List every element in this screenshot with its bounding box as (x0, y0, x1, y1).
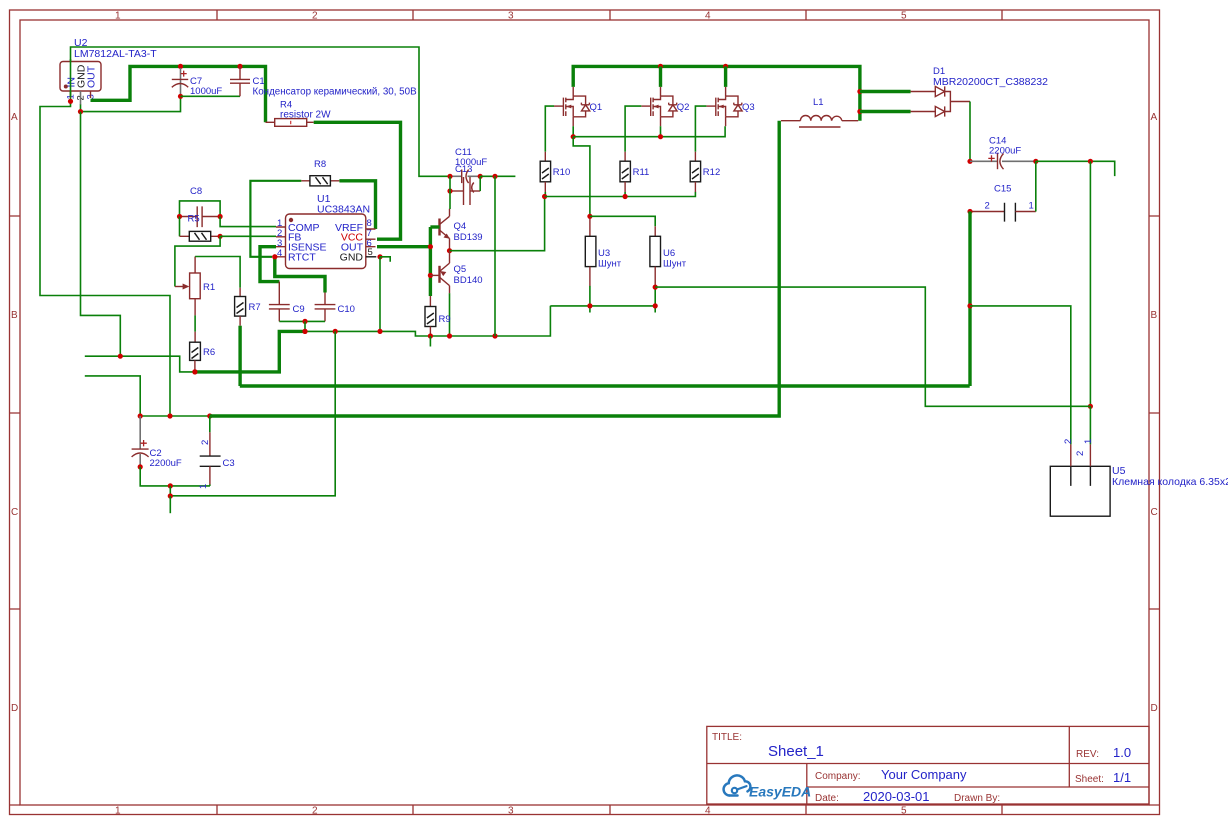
wire: R1 bottom to R6 top (194, 315, 196, 331)
wire: C8 right to U1 COMP (pin1) (220, 217, 276, 227)
regulator U2 LM7812AL-TA3-T (60, 37, 157, 112)
node: ground rail at x305 (302, 329, 307, 334)
wire: U2 GND to C7/C1 bottom node (81, 96, 181, 111)
diode D1 MBR20200CT (911, 66, 1049, 117)
node: C8 right junction (218, 214, 223, 219)
svg-text:1: 1 (115, 11, 121, 22)
wire: GND pin5 down to ground rail (379, 257, 381, 332)
node: emitters junction (447, 248, 452, 253)
frame top ticks (217, 10, 1002, 20)
capacitor C1 ceramic (230, 64, 417, 98)
svg-text:Company:: Company: (815, 771, 861, 782)
wire: R5 right to U1 FB (pin2) (220, 235, 276, 237)
svg-text:2: 2 (1075, 451, 1086, 456)
svg-text:C13: C13 (455, 164, 472, 175)
svg-text:Your Company: Your Company (881, 767, 967, 782)
node: rail at Q2 (658, 64, 663, 69)
svg-text:C3: C3 (223, 458, 235, 469)
svg-text:U3: U3 (598, 248, 610, 259)
svg-text:R12: R12 (703, 167, 720, 178)
wire: R4 left lead joint (266, 121, 275, 123)
svg-text:D: D (1151, 703, 1158, 714)
wire: net y416 thin part (140, 415, 210, 417)
wire: FB net down to R1 wiper (175, 236, 220, 286)
wire: Q3 gate down to R12 (695, 106, 706, 152)
node: RTCT pin4 junction redraw (272, 254, 277, 259)
wire: R7 bottom thick to mid rail (238, 326, 241, 386)
wire: U6 bottom (654, 287, 656, 312)
terminal block U5 (1050, 439, 1228, 516)
capacitor C13 (450, 147, 487, 183)
svg-text:2200uF: 2200uF (989, 146, 1021, 157)
resistor R12 (690, 152, 720, 192)
svg-text:2: 2 (1063, 439, 1074, 444)
svg-text:C: C (1151, 507, 1158, 518)
wire: feed to D1 top anode thick (860, 90, 911, 93)
node: shunt rail at U6 (653, 303, 658, 308)
svg-text:Q2: Q2 (677, 102, 690, 113)
resistor R11 (620, 152, 649, 197)
svg-text:BD140: BD140 (454, 275, 483, 286)
svg-text:Sheet:: Sheet: (1075, 774, 1104, 785)
node: Q1 source junction (571, 134, 576, 139)
svg-text:TITLE:: TITLE: (712, 732, 742, 743)
svg-text:5: 5 (901, 11, 907, 22)
wire: top +V rail thick (573, 66, 860, 120)
svg-text:3: 3 (508, 11, 514, 22)
wire: U3 top to U6 top (590, 216, 655, 226)
wire: Q1 source down to U3 (573, 137, 590, 217)
wire: ground rail thin (305, 306, 550, 336)
svg-text:LM7812AL-TA3-T: LM7812AL-TA3-T (74, 48, 157, 60)
svg-text:5: 5 (901, 806, 907, 817)
svg-text:Q5: Q5 (454, 264, 467, 275)
wire: R8 right to U1 VREF (pin8) thick (339, 181, 375, 229)
svg-text:C9: C9 (293, 304, 305, 315)
wire: U1 RTCT to C10 top thick (275, 257, 325, 293)
node: x495 top junction (492, 174, 497, 179)
node: U5 pin1 net junction (1088, 404, 1093, 409)
svg-text:R5: R5 (188, 214, 200, 225)
node: R5 right junction (FB net) (218, 234, 223, 239)
capacitor C9 (269, 304, 305, 321)
EasyEDA logo cloud (724, 775, 751, 795)
svg-text:1: 1 (1029, 201, 1034, 212)
resistor R4 2W (275, 100, 331, 127)
wire: C8 left down to R5 left (179, 217, 181, 237)
wire: shunt bottom rail (550, 305, 655, 307)
node: Q5 base junction (428, 273, 433, 278)
wire: Q4 base thick from OUT net (430, 225, 439, 228)
capacitor C10 (315, 293, 355, 322)
mosfet Q2 (641, 87, 689, 126)
wire: C9/C10 bottom link (279, 320, 325, 322)
node: C13 left junction (447, 174, 452, 179)
node: C14 right junction (1033, 159, 1038, 164)
capacitor C7 1000uF (172, 64, 223, 99)
node: U3 top junction (587, 214, 592, 219)
wire: GND pin5 stub right (380, 257, 390, 262)
svg-text:C10: C10 (338, 304, 355, 315)
svg-text:D: D (11, 703, 18, 714)
node: rail at Q3 (723, 64, 728, 69)
node: ground rail x495 (492, 333, 497, 338)
wire: C8 bypass loop top (180, 201, 221, 217)
svg-text:Drawn By:: Drawn By: (954, 793, 1000, 804)
node: C14 left junction (967, 159, 972, 164)
wire: C3 top lead from y416 (209, 416, 211, 432)
node: L1 right rail D1 top feed (857, 89, 862, 94)
wire: Q2 source lead (660, 126, 662, 137)
wire: U2 IN up and across top to C13 node (71, 47, 451, 176)
node: bottom net x170 lower (168, 493, 173, 498)
potentiometer R1 (175, 257, 215, 316)
svg-text:R1: R1 (203, 282, 215, 293)
node: C8 left junction (177, 214, 182, 219)
wire: rail drop to Q2 drain (659, 66, 662, 87)
node: C9/C10 junction redraw (302, 329, 307, 334)
svg-text:C1: C1 (253, 76, 265, 87)
resistor R5 (180, 231, 221, 241)
capacitor C11 (450, 177, 480, 205)
wire: feed to D1 bottom anode thick (860, 110, 911, 113)
node: shunt rail at U3 (587, 303, 592, 308)
svg-text:Q3: Q3 (742, 102, 755, 113)
node: y416 x140 (138, 413, 143, 418)
svg-text:Q4: Q4 (454, 221, 467, 232)
wire: C7 bottom to C1 bottom (181, 95, 241, 97)
svg-text:EasyEDA: EasyEDA (749, 784, 811, 800)
svg-text:Конденсатор керамический, 30,: Конденсатор керамический, 30, 50В (253, 87, 418, 98)
svg-text:2200uF: 2200uF (150, 458, 182, 469)
svg-text:Sheet_1: Sheet_1 (768, 743, 824, 760)
svg-text:2: 2 (985, 201, 990, 212)
resistor R10 (540, 152, 570, 197)
node: GND pin5 junction (377, 254, 382, 259)
svg-text:A: A (11, 112, 18, 123)
capacitor C2 2200uF (132, 416, 182, 470)
svg-text:1000uF: 1000uF (190, 86, 222, 97)
node: RTCT pin4 junction (272, 254, 277, 259)
node: R11 bottom junction (623, 194, 628, 199)
capacitor C14 2200uF (970, 136, 1036, 170)
wire: Q5 collector to ground rail (449, 293, 451, 336)
resistor R9 (425, 296, 451, 336)
svg-text:R11: R11 (633, 167, 650, 178)
IC U1 UC3843AN (276, 193, 376, 269)
wire: OUT vertical thick Q4/Q5 bases to R9 (429, 227, 432, 296)
inductor L1 (781, 97, 858, 127)
wire: U1 OUT (pin6) thick (377, 245, 430, 248)
wire: R9 stub below (429, 336, 431, 347)
svg-text:Date:: Date: (815, 793, 839, 804)
node: U2 GND junction (78, 109, 83, 114)
wire: rail drop to Q3 drain (724, 66, 727, 87)
svg-text:4: 4 (705, 11, 711, 22)
title block outline (707, 726, 1149, 804)
svg-text:2: 2 (312, 806, 318, 817)
svg-text:1: 1 (198, 484, 209, 489)
node: R9 bottom on ground rail (428, 333, 433, 338)
svg-text:GND: GND (340, 251, 364, 263)
frame left ticks (10, 216, 1160, 805)
node: U6 bottom junction (653, 285, 658, 290)
svg-text:BD139: BD139 (454, 232, 483, 243)
svg-text:Клемная колодка 6.35x2: Клемная колодка 6.35x2 (1112, 476, 1228, 488)
svg-text:4: 4 (705, 806, 711, 817)
svg-text:Шунт: Шунт (663, 259, 687, 270)
node: C14 row x1090 (1088, 159, 1093, 164)
wire: U2 OUT thick to +12V rail (91, 66, 266, 122)
wire: U2 IN down-left to long left rail (40, 101, 170, 416)
wire: stub rail to C2 node (85, 376, 140, 416)
wire: stub below x170 (169, 496, 171, 513)
svg-text:C8: C8 (190, 186, 202, 197)
wire: R6 bottom stub to left rail (85, 356, 195, 372)
transistor Q5 BD140 (430, 251, 482, 294)
svg-text:2020-03-01: 2020-03-01 (863, 789, 930, 804)
svg-text:3: 3 (508, 806, 514, 817)
svg-text:B: B (11, 310, 18, 321)
resistor R7 (235, 288, 261, 326)
svg-text:C: C (11, 507, 18, 518)
svg-text:MBR20200CT_C388232: MBR20200CT_C388232 (933, 76, 1048, 88)
svg-text:R7: R7 (249, 302, 261, 313)
node: y416 x170 (167, 413, 172, 418)
node: C13 right junction (478, 174, 483, 179)
resistor R6 (190, 332, 216, 372)
svg-text:Q1: Q1 (590, 102, 603, 113)
wire: C14 right down to U5 pin1 node (1089, 161, 1091, 406)
wire: output+ thick down from C15 left (968, 212, 971, 387)
wire: output+ to U5 pin2 (970, 306, 1071, 445)
svg-text:C15: C15 (994, 184, 1011, 195)
svg-text:R10: R10 (553, 167, 570, 178)
wire: C15 right up to C14 right (1035, 161, 1037, 211)
wire: C13 node right to x495 (480, 175, 515, 177)
wire: x170 link down (169, 486, 171, 496)
svg-text:1/1: 1/1 (1113, 770, 1131, 785)
wire: U3 bottom (589, 286, 591, 313)
wire: C13/C11 right link (479, 176, 481, 191)
svg-text:2: 2 (312, 11, 318, 22)
svg-text:REV:: REV: (1076, 749, 1099, 760)
wire: U5 pin1 lead (1089, 406, 1091, 444)
wire: R6 bottom thick to ground rail (195, 331, 305, 372)
wire: emitter node to R10 bottom rail (450, 197, 545, 251)
node: left rail junction at x120 (118, 354, 123, 359)
wire: Q1 source to source bus (572, 126, 574, 137)
wire: U2 GND rail down left side (81, 112, 121, 357)
wire: x335 down to C2/C3 bottom net (170, 331, 335, 495)
wire: thick mid rail y386 (240, 384, 970, 387)
wire: U6 bottom net to U5 pin1 net (655, 287, 1090, 406)
node: y416 x209.8 (207, 413, 212, 418)
node: R6 bottom junction (192, 369, 197, 374)
wire: R1 top to R7 top (195, 257, 240, 288)
node: ground rail x335 (333, 329, 338, 334)
frame right ticks (1149, 216, 1160, 609)
node: R6 bottom junction redraw (192, 369, 197, 374)
wire: C14 row to right stub (1036, 161, 1115, 176)
wire: R4 to U1 VCC (pin7) thick (314, 122, 401, 239)
svg-text:1: 1 (1083, 439, 1094, 444)
capacitor C15 (970, 184, 1036, 222)
shunt U3 (585, 216, 621, 286)
wire: C2 bottom to C3 bottom (140, 467, 210, 486)
node: output+ branch to U5 (967, 303, 972, 308)
node: bottom net x170 upper (168, 483, 173, 488)
wire: U1 ISENSE to C9 top thick (260, 247, 279, 282)
svg-text:U6: U6 (663, 248, 675, 259)
svg-text:R9: R9 (439, 314, 451, 325)
node: OUT junction (428, 244, 433, 249)
wire: C13/C11 left link down to Q4 collector (449, 176, 451, 209)
svg-text:1: 1 (115, 806, 121, 817)
wire: Q2 gate down to R11 (625, 106, 641, 152)
svg-text:Шунт: Шунт (598, 259, 622, 270)
wire: x495 vertical to ground rail (494, 176, 496, 336)
transistor Q4 BD139 (440, 209, 483, 251)
svg-text:A: A (1151, 112, 1158, 123)
svg-text:R8: R8 (314, 159, 326, 170)
wire: R8 left to U1 RTCT (pin4) (250, 181, 301, 257)
shunt U6 (650, 236, 687, 287)
mosfet Q1 (554, 87, 602, 126)
node: C9/C10 bottom junction (302, 319, 307, 324)
wire: D1 cathode down to C14 (969, 102, 971, 162)
node: U2 pin1 junction (68, 99, 73, 104)
node: L1 right rail D1 bottom feed (857, 109, 862, 114)
node: Q5 collector on ground rail (447, 333, 452, 338)
capacitor C3 (198, 432, 235, 489)
wire: Q1 gate down to R10 (545, 106, 554, 152)
wire: source bus Q1-Q2-Q3 (573, 126, 725, 136)
node: Q2 source junction (658, 134, 663, 139)
wire: down to ground rail (304, 321, 306, 331)
node: C11 left junction (447, 188, 452, 193)
node: ground rail x380 (377, 329, 382, 334)
wire: thick net y416 to L1 left (210, 121, 779, 416)
node: R10 bottom junction (542, 194, 547, 199)
svg-text:1.0: 1.0 (1113, 745, 1131, 760)
svg-text:L1: L1 (813, 97, 824, 108)
capacitor C8 (180, 186, 221, 227)
resistor R8 (301, 159, 339, 186)
wire: pin1 net over U2 body (70, 59, 72, 97)
mosfet Q3 (706, 87, 754, 126)
svg-text:R6: R6 (203, 347, 215, 358)
node: C15 left junction (967, 209, 972, 214)
svg-text:2: 2 (200, 440, 211, 445)
wire: C9 top lead (278, 282, 280, 305)
svg-text:B: B (1151, 310, 1158, 321)
svg-text:OUT: OUT (86, 65, 98, 88)
svg-text:RTCT: RTCT (288, 251, 316, 263)
wire: bottom rail R10-R11-R12 (545, 192, 696, 197)
frame bottom ticks (217, 805, 1002, 815)
